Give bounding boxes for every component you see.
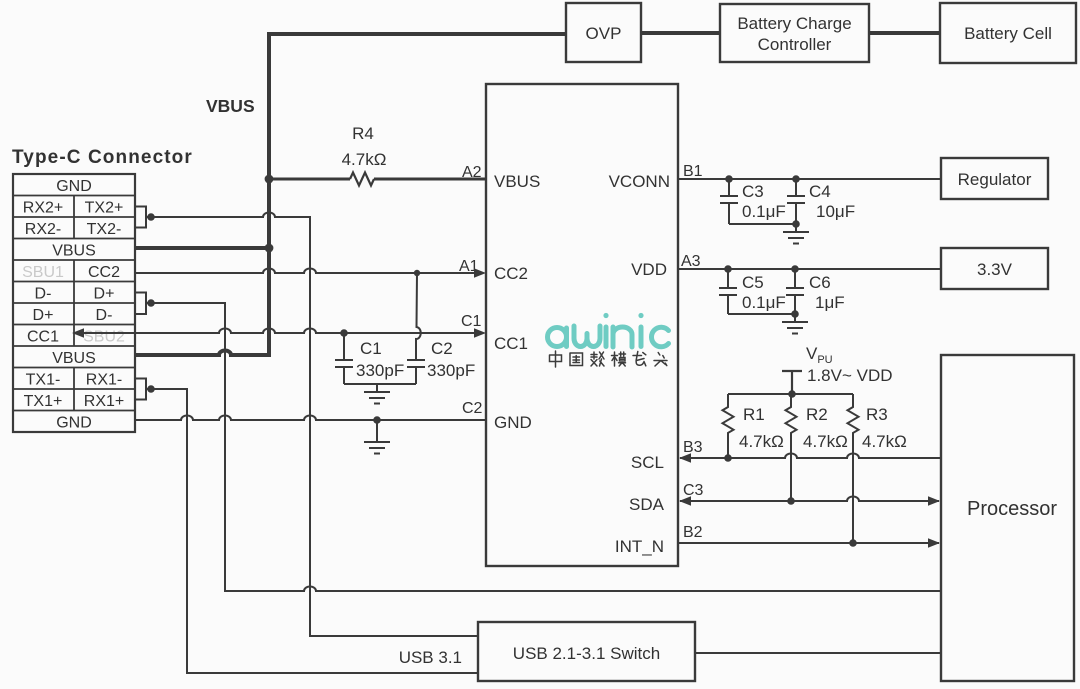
wire D pair bracket <box>135 293 150 315</box>
svg-text:INT_N: INT_N <box>615 537 664 556</box>
svg-text:VCONN: VCONN <box>609 172 670 191</box>
svg-text:CC2: CC2 <box>88 264 120 281</box>
svg-text:4.7kΩ: 4.7kΩ <box>739 432 784 451</box>
node TX1 bracket junction <box>147 385 155 393</box>
node junction VCONN / C3 <box>725 175 733 183</box>
svg-text:VBUS: VBUS <box>494 172 540 191</box>
svg-text:C5: C5 <box>742 273 764 292</box>
svg-text:VPU: VPU <box>806 344 833 366</box>
node junction SCL / R1 <box>724 454 732 462</box>
wire CC2 from connector to pin A1 with hops over VBUS riser and TX2 drop <box>135 269 474 274</box>
svg-text:330pF: 330pF <box>356 361 404 380</box>
ground (C1/C2) <box>364 384 390 404</box>
wire TX2 pair bracket <box>135 207 150 228</box>
svg-text:D-: D- <box>96 307 113 324</box>
svg-text:0.1μF: 0.1μF <box>742 293 786 312</box>
capacitor C4 <box>787 179 805 224</box>
resistor R2 <box>786 394 797 501</box>
wire SDA C3 to Processor, hop over R3 leg <box>680 497 939 502</box>
resistor R1 <box>723 394 734 458</box>
wire TX1 route: right, down, across to USB switch <box>151 389 478 673</box>
svg-text:Battery Cell: Battery Cell <box>964 24 1052 43</box>
block OVP <box>566 3 641 62</box>
svg-text:D+: D+ <box>33 307 54 324</box>
capacitor C5 <box>719 269 737 314</box>
node junction INT_N / R3 <box>849 539 857 547</box>
node junction VCONN / C4 <box>792 175 800 183</box>
awinic watermark logo <box>548 313 669 347</box>
block Regulator <box>941 158 1048 199</box>
svg-text:TX1-: TX1- <box>26 372 61 389</box>
resistor R3 <box>848 394 859 543</box>
node junction GND / ground symbol <box>373 416 381 424</box>
svg-text:VBUS: VBUS <box>52 350 96 367</box>
svg-text:C1: C1 <box>461 313 482 330</box>
svg-text:C1: C1 <box>360 339 382 358</box>
svg-text:D-: D- <box>35 286 52 303</box>
node junction rail / V_PU stem <box>788 390 796 398</box>
svg-text:CC1: CC1 <box>494 334 528 353</box>
node junction VBUS riser / row4 <box>265 244 274 253</box>
svg-text:1.8V~ VDD: 1.8V~ VDD <box>807 366 893 385</box>
svg-text:R2: R2 <box>806 405 828 424</box>
svg-text:3.3V: 3.3V <box>977 260 1013 279</box>
node junction CC1 / C1 cap <box>340 329 348 337</box>
node junction CC2 / C2 cap tap <box>414 270 420 276</box>
svg-text:C4: C4 <box>809 182 831 201</box>
wire SCL B3 to Processor, hops over R2 R3 legs <box>680 454 941 459</box>
block 3.3V <box>941 248 1048 289</box>
svg-text:4.7kΩ: 4.7kΩ <box>342 150 387 169</box>
svg-text:Processor: Processor <box>967 498 1057 520</box>
svg-text:A3: A3 <box>681 253 701 270</box>
svg-text:CC2: CC2 <box>494 264 528 283</box>
svg-text:Controller: Controller <box>758 35 832 54</box>
block Battery Charge Controller <box>720 4 869 62</box>
svg-text:RX2+: RX2+ <box>23 200 63 217</box>
wire C3/C4 common <box>729 223 796 225</box>
node junction C4 / ground <box>792 220 800 228</box>
capacitor C1 <box>335 333 353 384</box>
svg-text:USB 2.1-3.1 Switch: USB 2.1-3.1 Switch <box>513 644 660 663</box>
wire TX1 pair bracket <box>135 379 150 400</box>
svg-text:SDA: SDA <box>629 495 665 514</box>
block USB 2.1-3.1 Switch <box>478 622 695 681</box>
svg-text:Type-C Connector: Type-C Connector <box>12 147 193 168</box>
svg-text:4.7kΩ: 4.7kΩ <box>803 432 848 451</box>
svg-text:OVP: OVP <box>586 24 622 43</box>
svg-text:GND: GND <box>56 178 92 195</box>
svg-text:TX1+: TX1+ <box>24 393 63 410</box>
wire VDD A3 to 3.3V <box>678 268 941 270</box>
wire C5/C6 common <box>728 313 795 315</box>
arrow SDA into IC <box>679 496 691 505</box>
svg-text:C2: C2 <box>431 339 453 358</box>
capacitor C3 <box>720 179 738 224</box>
svg-text:C2: C2 <box>462 400 483 417</box>
svg-text:10μF: 10μF <box>816 202 855 221</box>
wire INT_N B2 to Processor <box>678 542 939 544</box>
node junction C6 / ground <box>791 310 799 318</box>
ground (C5/C6) <box>782 314 808 334</box>
arrow INT_N into Processor <box>928 538 940 547</box>
wire VBUS thick: row9 stub, hop over D line, corner up riser to top, across to OVP <box>135 34 566 355</box>
resistor R4 <box>350 173 374 186</box>
svg-text:SBU2: SBU2 <box>83 329 125 346</box>
wire A2 VBUS branch with resistor gap <box>269 178 486 181</box>
wire C1/C2 common to ground <box>344 383 416 385</box>
wire GND from connector to pin C2, hops over TX1, D, TX2 drops <box>135 416 486 421</box>
arrow SCL into IC <box>679 453 691 462</box>
svg-text:1μF: 1μF <box>815 293 845 312</box>
svg-text:TX2-: TX2- <box>87 221 122 238</box>
svg-text:Battery Charge: Battery Charge <box>737 14 851 33</box>
svg-text:C3: C3 <box>683 482 704 499</box>
svg-text:RX1-: RX1- <box>86 372 122 389</box>
svg-text:GND: GND <box>494 413 532 432</box>
wire USB switch to Processor <box>695 652 941 654</box>
svg-text:D+: D+ <box>94 286 115 303</box>
svg-text:VDD: VDD <box>631 260 667 279</box>
wire VCONN B1 to Regulator <box>678 178 941 180</box>
svg-text:B2: B2 <box>683 524 703 541</box>
svg-text:B1: B1 <box>683 163 703 180</box>
svg-text:VBUS: VBUS <box>52 243 96 260</box>
Type-C connector table frame <box>13 174 135 432</box>
op-amp U1 main IC body <box>486 84 678 566</box>
node junction SDA / R2 <box>787 497 795 505</box>
block Processor <box>941 355 1074 681</box>
arrow SDA into Processor <box>928 496 940 505</box>
svg-text:USB 3.1: USB 3.1 <box>399 648 462 667</box>
node TX2 bracket junction <box>147 213 155 221</box>
ground (GND net) <box>364 420 390 454</box>
wire Battery Charge Controller to Battery Cell <box>869 31 940 35</box>
svg-text:C3: C3 <box>742 182 764 201</box>
ground (C3/C4) <box>783 224 809 244</box>
svg-text:GND: GND <box>56 415 92 432</box>
arrow CC1 into connector <box>72 328 84 337</box>
wire D route: right, down, across to Processor with hop over TX2 drop <box>151 303 941 591</box>
svg-text:RX2-: RX2- <box>25 221 61 238</box>
wire CC1 from connector (arrow into table) to pin C1, hops over D, VBUS riser, TX2 <box>84 329 474 334</box>
svg-text:TX2+: TX2+ <box>85 200 124 217</box>
svg-text:C6: C6 <box>809 273 831 292</box>
block Battery Cell <box>940 3 1076 63</box>
wire VBUS thick: row4 stub to vertical riser <box>135 246 269 250</box>
node junction VDD / C6 <box>791 265 799 273</box>
svg-text:R1: R1 <box>743 405 765 424</box>
svg-text:4.7kΩ: 4.7kΩ <box>862 432 907 451</box>
svg-text:B3: B3 <box>683 439 703 456</box>
wire pull-up rail <box>728 393 853 395</box>
svg-text:SCL: SCL <box>631 453 664 472</box>
svg-text:R3: R3 <box>866 405 888 424</box>
svg-text:0.1μF: 0.1μF <box>742 202 786 221</box>
svg-text:SBU1: SBU1 <box>22 264 64 281</box>
svg-text:CC1: CC1 <box>27 329 59 346</box>
capacitor C6 <box>786 269 804 314</box>
svg-text:VBUS: VBUS <box>206 96 255 116</box>
node junction VDD / C5 <box>724 265 732 273</box>
svg-text:RX1+: RX1+ <box>84 393 124 410</box>
node D bracket junction <box>147 299 155 307</box>
arrow CC2 into IC <box>474 268 486 277</box>
wire C2 cap tap: down from CC2 with hop over CC1 <box>416 273 421 361</box>
wire TX2 route: right, hop over VBUS riser, down, to USB switch <box>151 213 478 637</box>
node junction VBUS riser / R4 branch <box>265 175 274 184</box>
awinic watermark chinese caption <box>550 351 668 367</box>
capacitor C2 <box>407 360 425 384</box>
svg-text:R4: R4 <box>352 124 374 143</box>
svg-text:330pF: 330pF <box>427 361 475 380</box>
arrow CC1 into IC <box>474 328 486 337</box>
svg-text:Regulator: Regulator <box>958 170 1032 189</box>
wire OVP to Battery Charge Controller <box>641 31 720 35</box>
power rail V_PU symbol <box>782 371 802 394</box>
